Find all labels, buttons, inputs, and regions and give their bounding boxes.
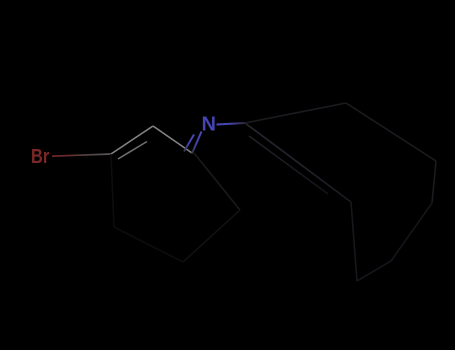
C=N double bond second line [184,135,194,152]
right ring edge R3-R4 [432,161,436,203]
left ring inner double bond line L1-L2 [118,142,147,160]
left ring faint edge L6-L1 [111,154,114,227]
bond Br-C1 [52,154,111,156]
bond N-R [217,123,246,125]
right ring edge R6-R7 [351,202,357,281]
right ring long diagonal R7-R1 [245,123,351,202]
left ring edge L1-L2 (rise) [111,126,153,154]
left ring edge L2-L3 (fall) [153,126,192,153]
left ring faint edge L5-L6 [114,227,183,262]
right ring edge R2-R3 [346,103,436,161]
svg-text:Br: Br [31,144,49,167]
right ring inner double bond line along diagonal [249,136,328,194]
right ring edge R5-R6 [357,261,391,281]
C=N double bond main line [192,132,202,154]
left ring faint edge L3-L4 [194,153,240,210]
right ring top edge R1-R2 [245,103,346,123]
right ring edge R4-R5 [391,203,432,261]
left ring faint edge L4-L5 [183,210,240,262]
svg-text:N: N [202,113,216,135]
